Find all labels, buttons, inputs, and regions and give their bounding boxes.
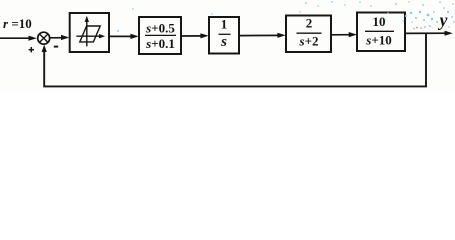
svg-text:s: s <box>220 34 227 50</box>
svg-text:10: 10 <box>373 14 386 29</box>
svg-text:s+2: s+2 <box>299 33 319 48</box>
svg-text:2: 2 <box>306 15 313 30</box>
svg-text:s+10: s+10 <box>365 33 391 48</box>
svg-text:s+0.5: s+0.5 <box>145 20 175 35</box>
svg-text:1: 1 <box>221 17 228 32</box>
svg-text:r =10: r =10 <box>3 16 32 31</box>
svg-text:y: y <box>438 10 448 30</box>
svg-text:s+0.1: s+0.1 <box>145 36 175 51</box>
